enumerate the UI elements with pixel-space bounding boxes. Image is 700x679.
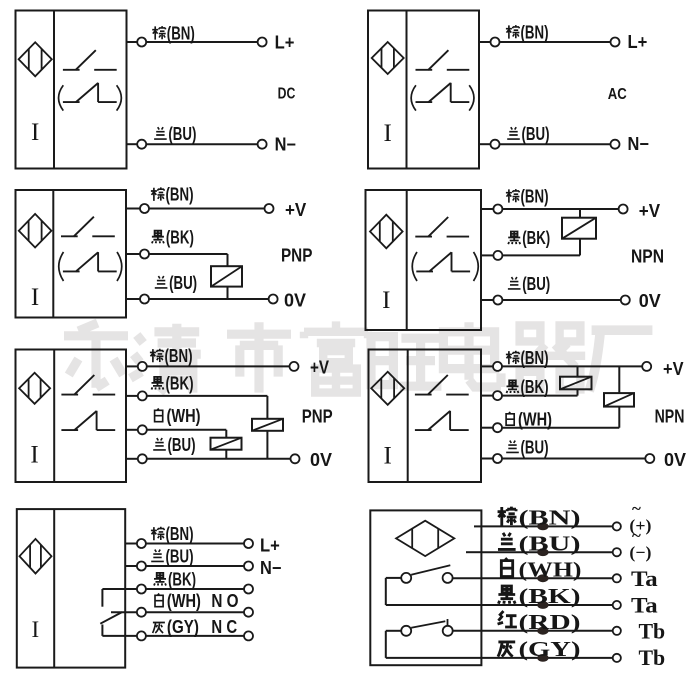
svg-text:(BN): (BN)	[519, 506, 581, 530]
svg-text:(BK): (BK)	[166, 373, 194, 394]
svg-text:(BN): (BN)	[167, 22, 195, 43]
svg-text:(BU): (BU)	[522, 273, 550, 294]
svg-text:N C: N C	[211, 617, 237, 637]
svg-text:0V: 0V	[284, 291, 306, 311]
svg-text:(BK): (BK)	[168, 569, 196, 590]
svg-text:I: I	[384, 120, 392, 147]
svg-text:(WH): (WH)	[519, 557, 582, 581]
svg-text:(−): (−)	[629, 543, 651, 562]
svg-text:(GY): (GY)	[167, 616, 199, 637]
svg-text:L+: L+	[260, 536, 280, 556]
svg-text:Tb: Tb	[639, 619, 666, 644]
svg-text:0V: 0V	[639, 291, 661, 311]
svg-text:(WH): (WH)	[518, 409, 552, 430]
svg-text:0V: 0V	[310, 450, 332, 470]
svg-text:0V: 0V	[664, 450, 686, 470]
svg-text:(BU): (BU)	[522, 123, 550, 144]
svg-text:NPN: NPN	[631, 246, 664, 266]
svg-text:N−: N−	[275, 135, 296, 155]
svg-text:N−: N−	[628, 134, 649, 154]
svg-text:PNP: PNP	[281, 246, 312, 266]
svg-text:(BN): (BN)	[521, 185, 549, 206]
svg-text:I: I	[30, 442, 38, 469]
svg-text:(WH): (WH)	[167, 590, 201, 611]
svg-text:(BU): (BU)	[166, 546, 194, 567]
svg-text:NPN: NPN	[655, 406, 685, 426]
svg-text:(GY): (GY)	[519, 637, 581, 661]
svg-text:+V: +V	[663, 359, 684, 379]
svg-text:(BU): (BU)	[169, 272, 197, 293]
svg-text:(BU): (BU)	[168, 123, 196, 144]
svg-text:I: I	[384, 443, 392, 470]
svg-text:Ta: Ta	[631, 566, 658, 591]
svg-text:(BK): (BK)	[521, 376, 549, 397]
svg-text:(RD): (RD)	[519, 610, 581, 634]
svg-text:(BK): (BK)	[519, 584, 581, 608]
svg-text:I: I	[382, 287, 390, 314]
svg-text:AC: AC	[608, 86, 627, 103]
svg-text:(BN): (BN)	[166, 523, 194, 544]
svg-text:(BN): (BN)	[166, 184, 194, 205]
svg-text:(BK): (BK)	[166, 226, 194, 247]
svg-text:I: I	[31, 284, 39, 311]
svg-text:(BN): (BN)	[165, 345, 193, 366]
svg-text:(WH): (WH)	[167, 405, 201, 426]
svg-text:+V: +V	[310, 358, 329, 378]
svg-text:L+: L+	[628, 32, 648, 52]
svg-text:(BU): (BU)	[168, 434, 196, 455]
svg-text:I: I	[31, 119, 39, 146]
svg-text:+V: +V	[639, 201, 660, 221]
svg-text:(BU): (BU)	[521, 437, 549, 458]
svg-text:(BU): (BU)	[519, 531, 581, 555]
svg-text:Tb: Tb	[639, 645, 666, 670]
svg-text:(BK): (BK)	[522, 227, 550, 248]
svg-text:(BN): (BN)	[521, 21, 549, 42]
svg-text:I: I	[31, 617, 39, 642]
svg-text:+V: +V	[285, 200, 306, 220]
svg-text:(BN): (BN)	[521, 347, 549, 368]
svg-text:DC: DC	[278, 85, 296, 102]
svg-text:N−: N−	[260, 558, 281, 578]
svg-text:L+: L+	[275, 33, 295, 53]
svg-text:N O: N O	[211, 591, 238, 611]
svg-text:PNP: PNP	[302, 406, 333, 426]
svg-text:Ta: Ta	[631, 592, 658, 617]
